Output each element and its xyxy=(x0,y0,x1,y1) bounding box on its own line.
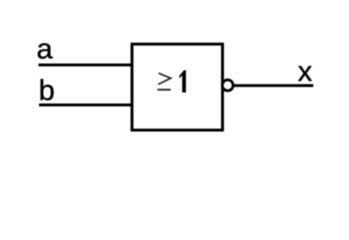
svg-text:x: x xyxy=(298,56,313,88)
svg-text:b: b xyxy=(39,75,55,107)
svg-text:a: a xyxy=(37,34,54,66)
